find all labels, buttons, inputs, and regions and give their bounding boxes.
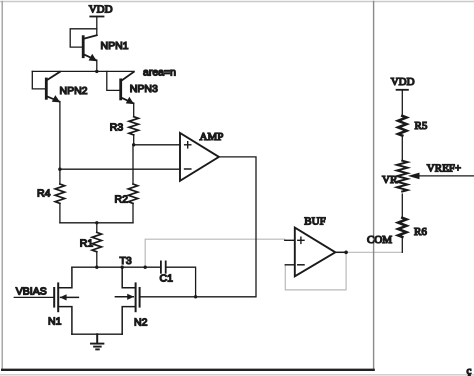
frame bottom dark edge xyxy=(2,369,373,371)
gray wire T3 to BUF plus input xyxy=(145,239,285,267)
wire R3 bottom to plus node xyxy=(133,135,135,145)
gray COM output wire xyxy=(346,251,402,253)
VREF+ wiper arrow xyxy=(419,175,474,177)
base bar xyxy=(119,80,122,99)
base bar xyxy=(45,79,48,98)
collector diagonal xyxy=(121,72,134,81)
svg-text:R2: R2 xyxy=(115,194,129,206)
source stub xyxy=(58,307,72,335)
node dot rail center xyxy=(95,221,98,224)
svg-text:NPN3: NPN3 xyxy=(130,83,158,95)
transistor NPN2 xyxy=(32,71,60,102)
gray feedback wire BUF minus to output xyxy=(285,252,346,290)
svg-text:NPN2: NPN2 xyxy=(60,85,88,97)
gate bar xyxy=(139,288,141,307)
ground xyxy=(91,334,103,349)
svg-text:N1: N1 xyxy=(48,315,62,327)
svg-text:R5: R5 xyxy=(415,120,428,132)
frame top light line xyxy=(0,1,474,3)
bulk arrow line xyxy=(61,296,79,298)
source stub xyxy=(122,307,135,335)
wire R5 to VR xyxy=(401,136,403,161)
emitter arrowhead xyxy=(126,97,134,104)
VBIAS gate wire xyxy=(14,296,54,298)
transistor NPN3 xyxy=(107,71,134,104)
op-amp AMP xyxy=(180,133,219,181)
drain stub xyxy=(122,267,135,288)
svg-text:R6: R6 xyxy=(414,226,427,238)
T3 rail xyxy=(72,266,161,268)
wire AMP output xyxy=(140,157,256,297)
resistor R1 xyxy=(92,232,101,251)
frame right edge xyxy=(373,2,375,370)
node rail (bases/collectors) xyxy=(32,70,134,72)
node dot minus input xyxy=(58,168,61,171)
node dot R1/T3 rail xyxy=(95,266,98,269)
svg-text:C1: C1 xyxy=(160,272,174,284)
svg-text:R1: R1 xyxy=(80,237,94,249)
wire BUF output xyxy=(335,251,346,253)
node dot C1/gate xyxy=(194,295,197,298)
bottom rail R4-R2 xyxy=(60,222,133,224)
node dot T3 xyxy=(121,266,124,269)
gate bar xyxy=(53,288,55,307)
svg-text:VR: VR xyxy=(382,174,398,186)
resistor R3 xyxy=(129,117,138,135)
base loop xyxy=(107,71,120,90)
svg-text:R4: R4 xyxy=(37,188,51,200)
node dot C1 tap xyxy=(144,266,147,269)
svg-text:AMP: AMP xyxy=(200,131,224,143)
potentiometer VR xyxy=(397,161,407,192)
bulk arrow line xyxy=(115,296,133,298)
resistor R6 xyxy=(398,218,406,237)
drain stub xyxy=(58,267,72,288)
collector diagonal xyxy=(84,35,97,39)
wire minus node to AMP xyxy=(60,168,180,170)
emitter diagonal xyxy=(47,96,60,101)
svg-text:VBIAS: VBIAS xyxy=(16,285,47,297)
svg-text:NPN1: NPN1 xyxy=(101,40,129,52)
channel bar xyxy=(135,283,137,311)
wire R6 to COM line xyxy=(401,237,403,252)
source rail xyxy=(72,333,122,335)
wire R4 bottom xyxy=(59,203,61,222)
base loop xyxy=(32,71,45,89)
svg-text:VREF+: VREF+ xyxy=(427,162,461,174)
frame bottom light line xyxy=(0,374,474,376)
emitter arrowhead xyxy=(52,95,60,102)
wire NPN1 emitter down to rail xyxy=(96,60,98,71)
emitter diagonal xyxy=(84,54,97,60)
svg-text:COM: COM xyxy=(367,234,392,246)
wire VDD to R5 xyxy=(401,90,403,116)
svg-text:T3: T3 xyxy=(120,255,132,267)
node dot plus input xyxy=(132,143,135,146)
svg-text:VDD: VDD xyxy=(89,3,113,15)
channel bar xyxy=(57,283,59,311)
svg-text:ç: ç xyxy=(467,365,472,376)
wire rail to R1 xyxy=(96,223,98,233)
resistor R5 xyxy=(398,116,406,136)
svg-text:BUF: BUF xyxy=(304,216,325,228)
wire R2 bottom xyxy=(132,203,134,222)
svg-text:N2: N2 xyxy=(134,316,148,328)
emitter arrowhead xyxy=(89,54,97,61)
transistor NPN1 xyxy=(70,29,97,61)
wire plus node down to R2 xyxy=(132,145,134,184)
VDD power bar right xyxy=(397,89,408,91)
base bar xyxy=(82,37,85,57)
collector diagonal xyxy=(47,72,60,80)
frame left edge xyxy=(1,2,3,370)
svg-text:area=n: area=n xyxy=(143,67,176,79)
svg-text:VDD: VDD xyxy=(391,76,415,88)
bulk arrowhead xyxy=(127,294,134,300)
wire VDD to NPN1 collector xyxy=(96,17,98,36)
bulk arrowhead xyxy=(60,294,67,300)
wire VR to R6 xyxy=(401,194,403,218)
op-amp BUF xyxy=(285,228,336,277)
node dot NPN1 emitter xyxy=(95,70,98,73)
wire plus node to AMP xyxy=(134,144,180,146)
wire R1 bottom to T3 rail xyxy=(96,252,98,267)
wire C1 right to gate wire xyxy=(166,267,196,297)
capacitor C1 xyxy=(161,261,166,272)
node dot BUF output xyxy=(344,251,348,255)
base loop xyxy=(70,29,97,47)
wire NPN3 emitter to R3 xyxy=(133,103,135,116)
resistor R4 xyxy=(55,184,64,203)
svg-text:R3: R3 xyxy=(110,121,124,133)
VDD power bar xyxy=(90,16,103,18)
MOSFET N2 xyxy=(115,267,139,334)
MOSFET N1 xyxy=(14,267,78,334)
wire NPN2 emitter down xyxy=(59,102,61,184)
resistor R2 xyxy=(128,184,137,203)
emitter diagonal xyxy=(121,98,133,104)
